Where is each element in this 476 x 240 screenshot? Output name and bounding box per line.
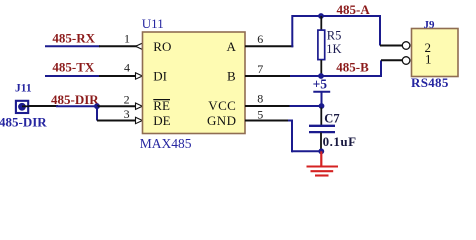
pin 4 input triangle (136, 73, 143, 79)
wire VCC to C7 (320, 108, 322, 126)
svg-text:485-DIR: 485-DIR (51, 92, 99, 107)
svg-text:GND: GND (207, 113, 236, 128)
svg-text:B: B (227, 68, 236, 83)
pin 4 DI wire (99, 75, 137, 77)
svg-text:RO: RO (153, 39, 171, 54)
connector J9 (402, 29, 458, 77)
wire C7 to ground (320, 133, 322, 150)
wire B rise to J9 (380, 60, 382, 77)
svg-text:485-A: 485-A (337, 2, 371, 17)
J9 pin 2 wire (380, 45, 403, 47)
resistor R5 (318, 16, 325, 76)
svg-text:5: 5 (257, 108, 263, 122)
wire 485-DIR net (56, 105, 97, 107)
svg-text:2: 2 (124, 93, 130, 107)
svg-text:RE: RE (153, 98, 170, 113)
svg-text:485-DIR: 485-DIR (0, 115, 47, 130)
svg-text:485-RX: 485-RX (52, 30, 95, 45)
wire DIR branch vertical (96, 106, 98, 120)
connector J11 pin wire (22, 105, 58, 107)
wire VCC run (290, 105, 322, 107)
pin 2 input triangle (136, 103, 143, 109)
wire A vertical riser (291, 15, 293, 47)
svg-text:DI: DI (153, 68, 167, 83)
wire 485-A top run (292, 15, 381, 17)
svg-text:485-B: 485-B (336, 59, 369, 74)
wire GND bottom run (292, 150, 321, 152)
svg-text:1K: 1K (326, 42, 341, 56)
svg-text:8: 8 (257, 92, 263, 106)
svg-text:3: 3 (124, 107, 130, 121)
junction node B / R5 bottom (318, 73, 324, 79)
svg-text:C7: C7 (324, 111, 339, 125)
IC U11 MAX485 body (143, 32, 246, 134)
pin 5 GND wire (245, 120, 289, 122)
svg-text:U11: U11 (142, 16, 164, 31)
wire 485-B run (290, 75, 381, 77)
pin 1 RO wire (99, 45, 137, 47)
wire A drop to J9 (379, 15, 381, 46)
svg-text:6: 6 (257, 32, 263, 46)
svg-text:J11: J11 (15, 83, 32, 95)
svg-text:R5: R5 (327, 29, 342, 43)
pin 2 RE wire (97, 105, 137, 107)
svg-text:1: 1 (124, 31, 130, 45)
svg-text:485-TX: 485-TX (52, 60, 95, 75)
connector J11 (16, 101, 29, 113)
power +5 symbol (313, 76, 331, 106)
pin name RE (active low) (153, 98, 170, 113)
svg-text:+5: +5 (313, 76, 328, 91)
pin 7 B wire (245, 75, 291, 77)
svg-text:DE: DE (153, 113, 170, 128)
J9 pin 1 wire (381, 59, 403, 61)
wire 485-TX net (45, 75, 100, 77)
svg-text:4: 4 (124, 61, 130, 75)
svg-text:A: A (227, 39, 237, 54)
svg-text:RS485: RS485 (411, 75, 449, 90)
svg-text:1: 1 (425, 52, 432, 67)
svg-text:7: 7 (257, 62, 263, 76)
svg-text:0.1uF: 0.1uF (323, 134, 357, 149)
capacitor C7 (309, 126, 335, 132)
svg-text:J9: J9 (424, 19, 436, 31)
pin 1 output triangle (136, 43, 143, 49)
svg-text:MAX485: MAX485 (140, 136, 192, 151)
pin 3 DE wire (97, 120, 137, 122)
pin 6 A wire (245, 45, 293, 47)
junction VCC node (319, 103, 325, 109)
junction node A / R5 top (318, 13, 324, 19)
wire 485-RX net (45, 45, 100, 47)
pin 8 VCC wire (245, 105, 291, 107)
pin 3 input triangle (136, 117, 143, 123)
junction 485-DIR node (94, 103, 100, 109)
wire GND run (288, 120, 293, 122)
ground (307, 151, 339, 175)
svg-text:VCC: VCC (208, 98, 236, 113)
junction ground node (318, 148, 324, 154)
wire GND drop (291, 121, 293, 153)
